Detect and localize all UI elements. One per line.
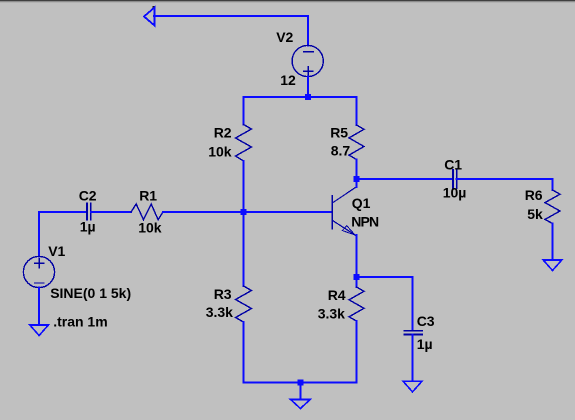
svg-text:Q1: Q1 xyxy=(352,195,371,211)
svg-text:3.3k: 3.3k xyxy=(318,306,345,322)
svg-text:3.3k: 3.3k xyxy=(206,304,233,320)
ground at bottom rail xyxy=(291,400,311,409)
wire: R2 bottom to base node xyxy=(243,161,245,212)
wire: R1 to base junction to Q1 base xyxy=(163,211,332,213)
wire: rail to R2 top xyxy=(243,97,245,125)
wire: bottom ground rail xyxy=(244,382,357,384)
cursor speck at arrow corner xyxy=(153,6,155,8)
resistor R3 xyxy=(236,286,252,322)
svg-text:5k: 5k xyxy=(527,206,543,222)
resistor R6 xyxy=(545,190,560,224)
voltage source V1 xyxy=(23,256,54,287)
svg-text:C3: C3 xyxy=(417,313,435,329)
resistor R5 xyxy=(349,125,364,160)
svg-text:R5: R5 xyxy=(330,125,348,141)
wire: C2 to R1 xyxy=(91,211,131,213)
wire: collector stub xyxy=(356,179,358,187)
svg-text:NPN: NPN xyxy=(351,214,379,230)
svg-text:V1: V1 xyxy=(48,243,65,259)
capacitor C3 xyxy=(405,331,422,335)
wire: input node at V1 top corner xyxy=(39,212,87,257)
wire: top horizontal from arrow to V2 drop xyxy=(154,16,308,46)
voltage source V2 xyxy=(292,45,323,76)
wire: emitter node to R4 xyxy=(356,277,358,287)
junction at V2/rail xyxy=(305,94,311,100)
wire: ground stub xyxy=(299,383,301,398)
top window edge line xyxy=(0,0,575,1)
resistor R1 xyxy=(131,204,163,220)
wire: R4 bottom to ground rail xyxy=(356,321,358,383)
svg-text:C1: C1 xyxy=(444,156,462,172)
svg-text:.tran 1m: .tran 1m xyxy=(53,313,107,329)
wire: base node down to R3 xyxy=(243,212,245,286)
svg-text:1µ: 1µ xyxy=(80,218,96,234)
ground under R6 xyxy=(543,260,562,271)
ground under V1 xyxy=(30,325,49,336)
ground under C3 xyxy=(403,381,422,392)
svg-text:R1: R1 xyxy=(139,187,157,203)
wire: C3 to ground xyxy=(412,335,414,381)
svg-text:R4: R4 xyxy=(328,287,346,303)
svg-text:SINE(0 1 5k): SINE(0 1 5k) xyxy=(50,285,131,301)
wire: emitter to emitter node xyxy=(356,235,358,277)
svg-text:V2: V2 xyxy=(276,29,293,45)
wire: collector node to C1 xyxy=(357,178,453,180)
wire: R3 bottom to ground rail xyxy=(243,322,245,383)
svg-text:8.7: 8.7 xyxy=(331,143,351,159)
capacitor C2 xyxy=(87,204,91,220)
svg-text:R6: R6 xyxy=(525,187,543,203)
svg-text:10µ: 10µ xyxy=(443,185,467,201)
svg-text:R3: R3 xyxy=(214,286,232,302)
wire: V2 bottom stub to supply rail xyxy=(307,77,309,97)
junction at emitter node xyxy=(354,274,360,280)
wire: V1 bottom to ground xyxy=(38,288,40,324)
resistor R2 xyxy=(236,125,252,162)
wire: R5 bottom to collector node xyxy=(356,160,358,180)
transistor Q1 xyxy=(331,196,333,229)
svg-text:10k: 10k xyxy=(138,220,162,236)
wire: C1 to R6 xyxy=(457,179,553,190)
wire: emitter node to C3 xyxy=(357,277,413,331)
capacitor C1 xyxy=(453,170,457,188)
svg-text:C2: C2 xyxy=(79,187,97,203)
svg-text:1µ: 1µ xyxy=(417,336,433,352)
svg-text:R2: R2 xyxy=(214,125,232,141)
wire: rail to R5 top xyxy=(356,97,358,125)
svg-text:12: 12 xyxy=(280,72,296,88)
wire: R6 to ground xyxy=(552,224,554,260)
junction at base node xyxy=(241,209,247,215)
svg-text:10k: 10k xyxy=(208,144,232,160)
wire: supply rail xyxy=(244,96,357,98)
junction at collector node xyxy=(354,176,360,182)
junction at ground rail xyxy=(297,380,303,386)
arrow head at left end of top wire xyxy=(144,8,155,26)
resistor R4 xyxy=(349,287,364,321)
